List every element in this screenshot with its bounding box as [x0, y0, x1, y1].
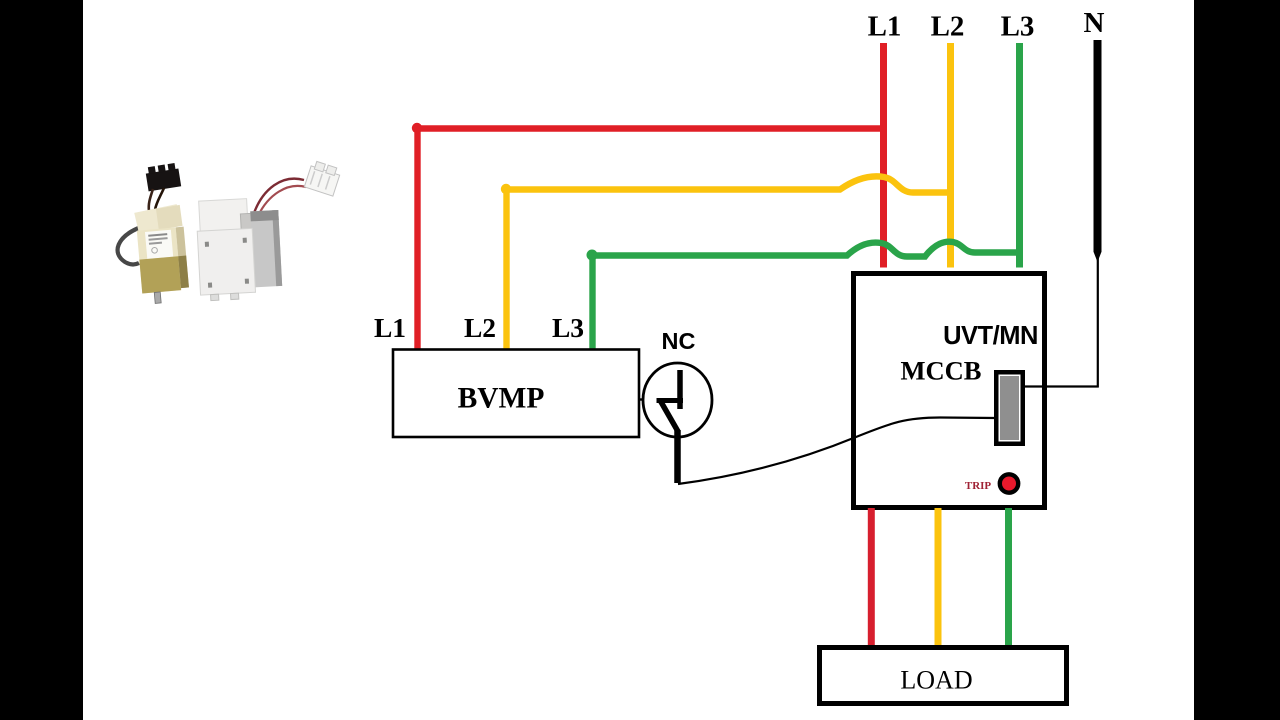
- NC fixed contact bar: [677, 370, 683, 409]
- node yellow corner: [501, 184, 511, 194]
- wire green branch to BVMP L3 (hops over red and yellow): [593, 242, 1020, 350]
- UVT coil (gray plunger): [994, 370, 1025, 446]
- wire yellow branch to BVMP L2 (hop over red): [507, 176, 951, 350]
- trip button: [1000, 474, 1018, 492]
- svg-text:L2: L2: [931, 11, 965, 43]
- wire green MCCB to LOAD: [1005, 508, 1012, 647]
- wire yellow MCCB to LOAD: [935, 508, 942, 647]
- svg-text:BVMP: BVMP: [458, 383, 545, 415]
- MCCB box: [854, 274, 1045, 508]
- LOAD box: [820, 648, 1067, 704]
- svg-text:L1: L1: [868, 11, 902, 43]
- svg-text:LOAD: LOAD: [900, 666, 972, 695]
- wire red branch to BVMP L1: [418, 129, 884, 351]
- svg-text:NC: NC: [662, 328, 696, 354]
- wire N lead into coil: [1025, 385, 1099, 387]
- wire NC to MCCB coil (thin curve): [678, 418, 995, 485]
- wire red MCCB to LOAD: [868, 508, 875, 647]
- svg-text:L3: L3: [1001, 11, 1035, 43]
- NC moving arm: [661, 401, 679, 432]
- undervoltage release photo (white device): [196, 160, 342, 301]
- undervoltage trip coil photo (beige device): [118, 163, 191, 305]
- wire BVMP to NC stub: [640, 398, 647, 400]
- wire N black vertical: [1094, 40, 1102, 252]
- wire L1 red vertical: [880, 43, 887, 268]
- BVMP box: [393, 350, 639, 438]
- svg-text:MCCB: MCCB: [901, 356, 982, 386]
- NC contact circle: [643, 363, 712, 437]
- svg-text:N: N: [1084, 7, 1105, 39]
- svg-text:L3: L3: [552, 312, 584, 343]
- svg-text:L1: L1: [374, 312, 406, 343]
- svg-text:UVT/MN: UVT/MN: [943, 322, 1038, 350]
- NC contact seat bar: [657, 398, 684, 403]
- svg-text:L2: L2: [464, 312, 496, 343]
- svg-text:TRIP: TRIP: [965, 480, 992, 492]
- node red corner: [412, 123, 422, 133]
- wire L3 green vertical: [1016, 43, 1023, 268]
- wire L2 yellow vertical: [947, 43, 954, 268]
- node green corner: [587, 250, 598, 261]
- wire NC lower lead: [674, 430, 681, 483]
- wire N thin vertical: [1097, 256, 1099, 388]
